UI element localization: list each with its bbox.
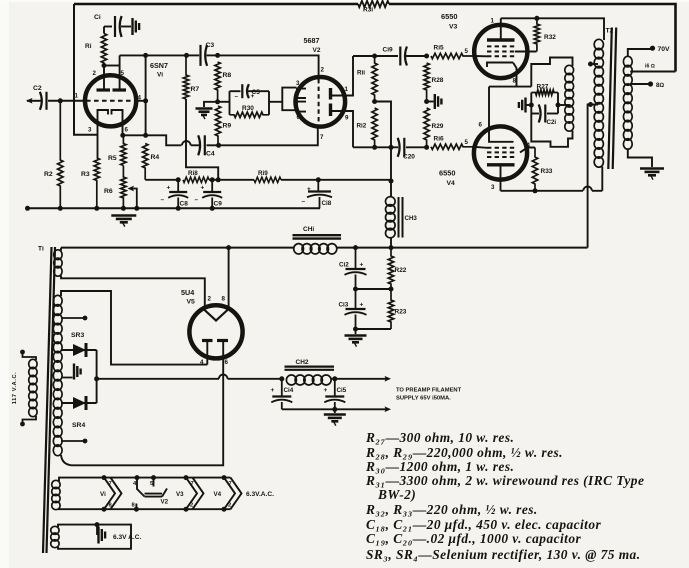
- V4 grid entry from R16: [474, 147, 487, 148]
- wire winding bottom to R27 network: [531, 114, 572, 147]
- svg-text:R₃₀—1200 ohm, 1 w. res.: R₃₀—1200 ohm, 1 w. res.: [365, 459, 514, 474]
- svg-text:–: –: [235, 93, 239, 100]
- resistor R28: [424, 63, 429, 102]
- svg-text:R28: R28: [432, 77, 444, 84]
- V3 plate line to T2: [501, 18, 604, 40]
- svg-text:3: 3: [491, 184, 495, 191]
- choke CH3: [386, 197, 396, 206]
- svg-text:6.3V A.C.: 6.3V A.C.: [113, 534, 142, 541]
- svg-text:5687: 5687: [304, 36, 320, 45]
- input terminal: [27, 100, 41, 102]
- V2 heater: [135, 475, 140, 480]
- svg-text:2: 2: [228, 503, 231, 509]
- capacitor C9 electrolytic: [211, 180, 213, 192]
- ground under C13: [355, 329, 357, 334]
- svg-text:7: 7: [191, 481, 194, 487]
- V4 heater: [222, 475, 227, 480]
- resistor R27: [531, 90, 558, 95]
- node ground tap: [95, 522, 100, 527]
- capacitor C12 electrolytic: [355, 248, 357, 269]
- wire R7 bottom down to B+ feed: [186, 99, 218, 180]
- svg-text:1: 1: [75, 93, 79, 100]
- node SR output: [94, 376, 99, 381]
- node R28/R29 ground: [424, 99, 429, 104]
- V5 pin4 leg: [206, 341, 208, 365]
- svg-text:Cі5: Cі5: [337, 386, 347, 394]
- resistor R18: [183, 177, 209, 182]
- wire V1 pin3 cathode to R3: [97, 126, 99, 158]
- wire pin9 line to C20: [353, 146, 398, 148]
- V1 pin 5 riser to plate node: [119, 55, 121, 90]
- resistor R15: [431, 53, 475, 58]
- terminal arrow filament +: [385, 376, 392, 382]
- V1 plate bars: [97, 88, 111, 91]
- svg-text:2: 2: [190, 503, 193, 509]
- V1 heater: [102, 475, 107, 480]
- choke CH2: [286, 375, 296, 385]
- V2 pin1 wire: [332, 56, 354, 96]
- svg-text:R6: R6: [104, 188, 113, 195]
- svg-text:R29: R29: [432, 123, 444, 130]
- svg-text:Vi: Vi: [157, 72, 163, 79]
- resistor R12: [372, 108, 377, 147]
- ground under R6: [111, 214, 136, 217]
- svg-text:+: +: [324, 387, 328, 394]
- selenium rectifier SR3: [61, 349, 97, 351]
- heater bus top: [59, 478, 231, 481]
- svg-text:5: 5: [465, 48, 469, 55]
- node pin4 riser top: [143, 53, 148, 58]
- svg-text:CHі: CHі: [303, 225, 314, 233]
- svg-text:6: 6: [225, 359, 229, 366]
- node primary tap: [588, 62, 593, 67]
- hop over B+ riser: [583, 186, 592, 190]
- ground stub at R30 network: [204, 102, 218, 107]
- 16 ohm tap: [630, 71, 675, 73]
- svg-text:CH2: CH2: [296, 359, 309, 366]
- terminal 70V: [650, 46, 655, 51]
- svg-text:C8: C8: [180, 201, 189, 208]
- svg-text:Ri5: Ri5: [434, 45, 445, 52]
- svg-text:V5: V5: [187, 299, 196, 306]
- svg-text:Rі9: Rі9: [258, 169, 268, 177]
- R6 wiper arrow: [128, 186, 135, 192]
- capacitor C8 electrolytic: [177, 180, 179, 192]
- svg-text:R5: R5: [108, 155, 117, 162]
- svg-text:C4: C4: [206, 151, 215, 158]
- svg-text:1: 1: [345, 86, 349, 93]
- V4 plate line to T2: [501, 190, 584, 192]
- wire V1 pin6 junction: [123, 126, 146, 135]
- svg-text:CH3: CH3: [405, 215, 418, 222]
- svg-text:3: 3: [296, 80, 300, 87]
- svg-text:R₂₇—300 ohm, 10 w. res.: R₂₇—300 ohm, 10 w. res.: [365, 430, 514, 445]
- 117VAC primary winding: [29, 359, 37, 368]
- V4 plate bar: [487, 163, 515, 166]
- svg-text:+: +: [251, 93, 255, 100]
- svg-text:2: 2: [208, 296, 212, 303]
- svg-text:5U4: 5U4: [181, 288, 194, 297]
- wire junction to B+ riser: [375, 102, 391, 182]
- HV tap upper terminal: [61, 317, 84, 319]
- svg-text:C9: C9: [214, 201, 223, 208]
- 5V winding bottom to 5U4 pin2: [61, 276, 205, 307]
- 117VAC bottom terminal: [23, 416, 37, 423]
- capacitor C21: [531, 113, 539, 115]
- svg-text:R23: R23: [395, 309, 407, 316]
- triode V1 6SN7 envelope: [85, 75, 136, 126]
- svg-text:R7: R7: [191, 86, 200, 93]
- wire R19 to CH3: [281, 179, 391, 181]
- CH1 core: [293, 234, 342, 236]
- winding center ground: [61, 377, 73, 379]
- svg-text:R8: R8: [223, 72, 232, 79]
- ground symbol mid: [434, 94, 436, 109]
- selenium rectifier SR4: [61, 402, 97, 404]
- svg-text:SR4: SR4: [72, 422, 85, 429]
- svg-text:R3: R3: [81, 171, 90, 178]
- 5V winding top to B+ line: [60, 248, 62, 251]
- resistor R30: [230, 112, 270, 117]
- capacitor C13 electrolytic: [355, 289, 357, 309]
- terminal arrow filament -: [385, 406, 392, 412]
- svg-text:C₁₉, C₂₀—.02 μfd., 1000 v. cap: C₁₉, C₂₀—.02 μfd., 1000 v. capacitor: [366, 531, 581, 546]
- V2 pin9 wire: [332, 111, 354, 147]
- svg-text:+: +: [167, 185, 171, 192]
- svg-text:+: +: [360, 262, 364, 269]
- wire CH2 to output arrow: [331, 378, 335, 380]
- wire feedback left drop to V1 cathode junction: [74, 4, 98, 135]
- wire junction line to C4 step: [146, 135, 182, 145]
- capacitor C4: [191, 144, 200, 146]
- resistor R2: [58, 101, 63, 209]
- wire C4 to V2 pin7: [219, 128, 318, 146]
- terminal 8 ohm: [648, 81, 653, 86]
- resistor R16: [431, 144, 474, 149]
- ground symbol near R30: [196, 107, 213, 110]
- node B+ riser bottom: [389, 179, 394, 184]
- node R12 bottom: [372, 145, 377, 150]
- svg-text:–: –: [195, 197, 199, 204]
- svg-text:SR₃, SR₄—Selenium rectifier, 1: SR₃, SR₄—Selenium rectifier, 130 v. @ 75…: [366, 547, 641, 562]
- wire hop over R7 column: [182, 141, 191, 145]
- svg-text:V4: V4: [214, 491, 222, 498]
- svg-text:R9: R9: [223, 123, 232, 130]
- V4 grid rows dashed: [487, 147, 515, 149]
- V5 plate chevron: [204, 310, 228, 321]
- resistor R8: [215, 62, 220, 102]
- svg-text:R₃₁—3300 ohm, 2 w. wirewound r: R₃₁—3300 ohm, 2 w. wirewound res (IRC Ty…: [365, 473, 644, 488]
- capacitor C18 electrolytic: [317, 180, 319, 192]
- svg-text:8: 8: [222, 296, 226, 303]
- node R2 ground: [58, 206, 63, 211]
- B+ feed line with R18 R19: [145, 179, 183, 181]
- node input/R2 junction: [58, 98, 63, 103]
- svg-text:7: 7: [109, 481, 112, 487]
- wire R30 box to V2 cathode bracket: [269, 101, 282, 103]
- filament return line: [282, 408, 387, 410]
- T1 HV winding: [53, 295, 62, 306]
- svg-text:V2: V2: [161, 499, 169, 506]
- svg-text:7: 7: [320, 134, 324, 141]
- resistor R7 (V1 plate load): [183, 55, 188, 99]
- node C20/R16/R29: [424, 145, 429, 150]
- ground stub R28/R29: [427, 101, 434, 103]
- svg-text:6550: 6550: [441, 12, 457, 21]
- svg-text:R33: R33: [541, 168, 553, 175]
- R30/C5 parallel network: [229, 91, 231, 115]
- wire to primary bottom: [601, 167, 603, 191]
- resistor R4: [143, 144, 148, 180]
- node C12 top: [353, 245, 358, 250]
- node C20 line crossing: [389, 145, 394, 150]
- node R6 bottom: [121, 206, 126, 211]
- node 5U4 pin8: [226, 245, 231, 250]
- resistor R11: [372, 56, 377, 102]
- node primary CT: [588, 102, 593, 107]
- choke CH1: [294, 244, 304, 254]
- heater bus bottom: [59, 508, 231, 510]
- svg-text:Cі2: Cі2: [339, 261, 349, 269]
- capacitor C15 electrolytic: [334, 379, 336, 397]
- ground bus left terminal: [25, 206, 30, 211]
- secondary bottom to ground: [628, 148, 652, 167]
- svg-text:V3: V3: [449, 24, 458, 31]
- svg-text:Ri: Ri: [85, 43, 92, 50]
- node pin4 on grid wire: [143, 98, 148, 103]
- svg-text:5: 5: [121, 70, 125, 77]
- node R8/R9 junction: [215, 99, 220, 104]
- svg-text:R22: R22: [395, 267, 407, 274]
- node R33 bottom: [533, 188, 538, 193]
- resistor R33: [532, 148, 537, 191]
- V1 pin 2 riser to R1: [103, 66, 105, 91]
- B+ riser to primary CT: [588, 105, 598, 248]
- svg-text:2: 2: [93, 70, 97, 77]
- svg-text:C20: C20: [403, 154, 415, 161]
- node R27 right: [556, 103, 561, 108]
- svg-text:+: +: [201, 185, 205, 192]
- V3 plate pin1 riser: [500, 18, 502, 40]
- triode V2 5687 envelope: [296, 77, 346, 127]
- 6.3V winding 2: [51, 526, 59, 534]
- capacitor C2: [40, 92, 42, 110]
- svg-text:R2: R2: [44, 171, 53, 178]
- svg-text:Tі: Tі: [38, 245, 44, 253]
- capacitor C14 electrolytic: [281, 379, 283, 397]
- ground at 6.3V winding: [96, 525, 98, 535]
- T2 secondary winding: [623, 56, 632, 67]
- potentiometer R6: [121, 166, 126, 209]
- T1 core: [43, 247, 52, 553]
- wire plate node to C3: [120, 54, 187, 56]
- pentode V4 6550 envelope: [474, 126, 527, 179]
- node C19/R15/R28: [424, 54, 429, 59]
- svg-text:5: 5: [465, 139, 469, 146]
- resistor R9: [215, 106, 220, 145]
- V2 cathode bracket outer: [282, 88, 296, 111]
- capacitor C5: [230, 90, 241, 92]
- svg-text:3: 3: [88, 127, 92, 134]
- V3 cathode: [487, 63, 513, 68]
- svg-text:Rі8: Rі8: [188, 169, 198, 177]
- wire R18 to R19: [209, 179, 254, 181]
- node R18/R7 junction: [216, 177, 221, 182]
- wire input to V1 grid: [48, 100, 85, 102]
- svg-text:6: 6: [125, 127, 129, 134]
- svg-text:R4: R4: [151, 154, 160, 161]
- T1 5V winding: [54, 250, 62, 260]
- svg-text:Cі3: Cі3: [339, 301, 349, 309]
- svg-text:Cі4: Cі4: [284, 386, 294, 394]
- svg-text:TO PREAMP FILAMENT: TO PREAMP FILAMENT: [396, 388, 462, 394]
- node R32 top: [534, 16, 539, 21]
- svg-text:+: +: [271, 387, 275, 394]
- node C18 top: [316, 177, 321, 182]
- wire R4 bottom to C8 line: [145, 179, 178, 181]
- svg-text:117 V.A.C.: 117 V.A.C.: [12, 372, 18, 405]
- svg-text:70V: 70V: [658, 46, 671, 53]
- resistor R22: [388, 248, 393, 289]
- svg-text:R30: R30: [242, 105, 254, 112]
- V1 grid dashed line: [86, 100, 136, 102]
- svg-text:6: 6: [297, 114, 301, 121]
- T2 primary winding: [594, 39, 603, 49]
- rectifier V5 5U4 envelope: [189, 305, 242, 358]
- node pin4 riser bottom: [143, 133, 148, 138]
- svg-text:6550: 6550: [439, 169, 455, 178]
- node R8 top: [215, 53, 220, 58]
- svg-text:V3: V3: [176, 491, 184, 498]
- HV bottom to 5U4 pin6 loop: [61, 455, 71, 465]
- svg-text:–: –: [161, 197, 165, 204]
- V2 plate bars: [329, 88, 332, 100]
- V4 plate pin3 drop: [500, 165, 502, 191]
- svg-text:6: 6: [479, 122, 483, 129]
- svg-text:6.3V.A.C.: 6.3V.A.C.: [246, 491, 274, 498]
- capacitor C19: [399, 47, 401, 66]
- svg-text:R₂₈, R₂₉—220,000 ohm, ½ w. res: R₂₈, R₂₉—220,000 ohm, ½ w. res.: [365, 445, 563, 460]
- resistor R29: [424, 108, 429, 147]
- resistor R5: [121, 135, 126, 165]
- V3 grid entry from R15: [475, 55, 488, 57]
- ground stub at R27: [527, 104, 532, 106]
- resistor R1: [101, 34, 106, 66]
- svg-text:8Ω: 8Ω: [656, 82, 664, 89]
- wire feedback top line from 16-ohm tap to V1 cathode: [389, 4, 676, 72]
- resistor R23: [388, 289, 393, 329]
- R27/C21 network box: [530, 93, 532, 114]
- svg-text:Vі: Vі: [100, 491, 106, 498]
- wire primary top: [603, 18, 605, 40]
- node R11 top: [372, 54, 377, 59]
- svg-text:+: +: [360, 302, 364, 309]
- svg-text:4: 4: [526, 45, 530, 52]
- wire V2 pin1 line to C19: [353, 55, 398, 57]
- svg-text:C2i: C2i: [547, 119, 557, 126]
- node R11/R12 junction: [372, 99, 377, 104]
- V3 grid rows dashed: [487, 45, 515, 47]
- primary tap stub: [590, 63, 599, 65]
- svg-text:C2: C2: [33, 85, 42, 92]
- svg-text:Rі2: Rі2: [357, 122, 367, 130]
- V2 grid dashed column: [318, 79, 320, 125]
- wire C3 to V2 grid: [218, 55, 319, 77]
- svg-text:BW-2): BW-2): [377, 487, 416, 502]
- secondary top to 70V: [628, 49, 651, 57]
- V4 screen exit: [520, 148, 535, 153]
- capacitor C3: [187, 54, 200, 56]
- svg-text:SUPPLY 65V і50MA.: SUPPLY 65V і50MA.: [396, 396, 451, 402]
- svg-text:SR3: SR3: [71, 332, 84, 339]
- node C8 top: [176, 177, 181, 182]
- svg-text:1: 1: [491, 18, 495, 25]
- ground at C1: [121, 26, 131, 28]
- svg-text:2: 2: [321, 67, 325, 74]
- node R1 bottom: [102, 63, 107, 68]
- V3 plate bar: [487, 38, 515, 41]
- C13/R23 bottom line: [356, 328, 392, 330]
- B+ line from rectifier to T2: [61, 247, 229, 249]
- node R3 ground: [94, 206, 99, 211]
- node R9 bottom: [216, 143, 221, 148]
- svg-text:Ri6: Ri6: [434, 136, 445, 143]
- resistor R19: [254, 177, 281, 182]
- svg-text:і6 Ω: і6 Ω: [645, 64, 655, 70]
- ground symbol at R27 network: [524, 98, 526, 113]
- node plate-node R7 top: [184, 53, 189, 58]
- 117VAC top terminal: [23, 353, 37, 360]
- V2 cathode sleeves: [297, 89, 306, 98]
- filament supply line from SR node: [97, 378, 219, 380]
- svg-text:R₃₂, R₃₃—220 ohm, ½ w. res.: R₃₂, R₃₃—220 ohm, ½ w. res.: [365, 502, 538, 517]
- node C14 top: [279, 376, 284, 381]
- hop over pin6 line: [219, 374, 228, 378]
- svg-text:+: +: [307, 186, 311, 193]
- svg-text:R32: R32: [544, 34, 556, 41]
- svg-text:C3: C3: [206, 42, 215, 49]
- svg-text:C₁₈, C₂₁—20 μfd., 450 v. elec.: C₁₈, C₂₁—20 μfd., 450 v. elec. capacitor: [366, 517, 601, 532]
- cathode winding: [565, 65, 574, 74]
- ground bus: [27, 207, 320, 209]
- svg-text:6SN7: 6SN7: [150, 61, 168, 70]
- svg-text:4: 4: [200, 359, 204, 366]
- node C15 bottom: [332, 407, 337, 412]
- wire cathode bus to winding top: [531, 58, 572, 87]
- V4 cathode riser: [488, 87, 490, 128]
- node C15 top: [332, 376, 337, 381]
- node R27 left: [529, 103, 534, 108]
- 6.3V loop: [58, 525, 131, 549]
- svg-text:V4: V4: [447, 180, 456, 187]
- V3 screen exit to R32: [515, 51, 537, 53]
- ground at T2 secondary: [640, 167, 664, 170]
- wire cathode bus V3-V4: [489, 86, 531, 88]
- resistor R3: [94, 158, 99, 208]
- pentode V3 6550 envelope: [474, 25, 527, 78]
- HV tap lower terminal: [61, 440, 84, 442]
- V5 pin6 leg: [222, 341, 224, 358]
- T2 core: [608, 28, 612, 170]
- wire V1 pin4 to riser: [136, 100, 146, 102]
- wire R1 junction to pin5 riser: [104, 65, 120, 67]
- 8 ohm tap: [630, 83, 649, 85]
- svg-text:V2: V2: [313, 47, 321, 54]
- capacitor C1: [104, 26, 112, 28]
- svg-text:R3i: R3i: [363, 7, 373, 14]
- svg-text:R27: R27: [537, 84, 549, 91]
- wire R8 junction to R30 box: [218, 101, 230, 103]
